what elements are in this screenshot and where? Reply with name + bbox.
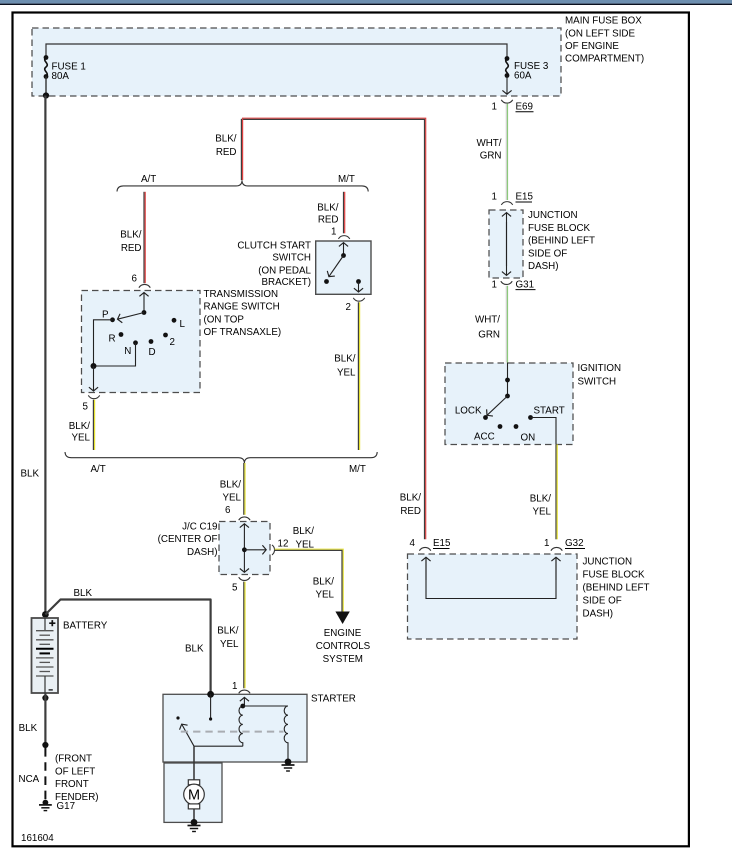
svg-text:5: 5 bbox=[83, 401, 89, 412]
svg-text:CONTROLS: CONTROLS bbox=[316, 641, 371, 652]
connector G31 cup bbox=[501, 281, 512, 284]
wire BLK/YEL clutch to lower brace bbox=[357, 302, 359, 450]
junction fuse block 2 internal link bbox=[426, 560, 556, 599]
svg-text:P: P bbox=[102, 309, 109, 320]
wire BLK/RED A/T branch bbox=[143, 192, 145, 283]
svg-text:MAIN FUSE BOX: MAIN FUSE BOX bbox=[565, 16, 642, 27]
engine controls system arrow bbox=[335, 612, 349, 625]
clutch switch entry arrow bbox=[343, 243, 345, 256]
svg-text:(ON PEDAL: (ON PEDAL bbox=[258, 265, 311, 276]
TRS contact R bbox=[119, 332, 124, 337]
svg-text:LOCK: LOCK bbox=[455, 405, 482, 416]
svg-text:BLK/: BLK/ bbox=[217, 625, 239, 636]
svg-text:DASH): DASH) bbox=[583, 609, 613, 620]
battery box bbox=[32, 618, 59, 693]
clutch switch arm bbox=[329, 256, 344, 277]
clutch start switch box bbox=[316, 241, 371, 294]
ignition START contact bbox=[528, 415, 533, 420]
svg-text:BLK/: BLK/ bbox=[400, 493, 422, 504]
TRS wire P to junction to N bbox=[94, 320, 136, 366]
svg-text:BLK/: BLK/ bbox=[69, 421, 91, 432]
svg-text:RED: RED bbox=[121, 243, 142, 254]
svg-text:DASH): DASH) bbox=[528, 261, 558, 272]
wire BLK/YEL TRS to lower brace bbox=[92, 400, 94, 450]
svg-text:1: 1 bbox=[331, 227, 336, 238]
svg-text:BLK/: BLK/ bbox=[317, 202, 339, 213]
svg-text:M: M bbox=[188, 788, 200, 804]
wire BLK/YEL J/C to starter bbox=[243, 582, 245, 689]
junction connector J/C C19 box bbox=[219, 522, 270, 575]
starter motor ground node bbox=[191, 819, 198, 826]
brace A/T M/T upper bbox=[117, 180, 368, 191]
clutch switch left contact bbox=[324, 279, 329, 284]
svg-text:YEL: YEL bbox=[315, 590, 334, 601]
svg-text:E69: E69 bbox=[516, 102, 533, 113]
J/C C19 internal vertical arrows bbox=[243, 524, 245, 550]
battery top tick bbox=[44, 618, 46, 631]
svg-text:JUNCTION: JUNCTION bbox=[528, 210, 578, 221]
svg-text:GRN: GRN bbox=[478, 329, 500, 340]
svg-text:6: 6 bbox=[225, 505, 231, 516]
TRS junction node bbox=[91, 363, 97, 369]
battery bottom tick bbox=[44, 676, 46, 693]
svg-text:(ON LEFT SIDE: (ON LEFT SIDE bbox=[565, 28, 636, 39]
clutch switch exit arrow pin 2 bbox=[358, 282, 360, 293]
svg-text:OF ENGINE: OF ENGINE bbox=[565, 41, 619, 52]
svg-text:SIDE OF: SIDE OF bbox=[583, 596, 622, 607]
svg-text:J/C C19: J/C C19 bbox=[182, 521, 217, 532]
svg-text:BRACKET): BRACKET) bbox=[261, 277, 311, 288]
junction fuse block 2 box bbox=[408, 554, 578, 639]
svg-text:COMPARTMENT): COMPARTMENT) bbox=[565, 54, 644, 65]
svg-text:WHT/: WHT/ bbox=[475, 314, 500, 325]
clutch switch pivot node bbox=[341, 253, 346, 258]
wire: bus inside main fuse box bbox=[46, 44, 507, 59]
svg-text:(BEHIND LEFT: (BEHIND LEFT bbox=[583, 583, 650, 594]
starter battery feed node bbox=[207, 691, 214, 698]
svg-text:YEL: YEL bbox=[71, 432, 90, 443]
svg-text:1: 1 bbox=[544, 538, 549, 549]
svg-text:M/T: M/T bbox=[349, 464, 366, 475]
svg-text:BLK: BLK bbox=[74, 588, 93, 599]
junction node above battery bbox=[42, 611, 49, 618]
svg-text:SIDE OF: SIDE OF bbox=[528, 248, 567, 259]
svg-text:FRONT: FRONT bbox=[55, 779, 89, 790]
TRS contact L bbox=[172, 318, 177, 323]
ground at starter solenoid bbox=[282, 764, 295, 766]
svg-text:WHT/: WHT/ bbox=[476, 138, 501, 149]
starter switch arm bbox=[182, 724, 194, 746]
wire from START inside box bbox=[531, 418, 557, 445]
svg-text:RANGE SWITCH: RANGE SWITCH bbox=[204, 302, 280, 313]
svg-text:JUNCTION: JUNCTION bbox=[583, 557, 633, 568]
svg-text:RED: RED bbox=[400, 506, 421, 517]
svg-text:SWITCH: SWITCH bbox=[272, 253, 311, 264]
svg-text:(ON TOP: (ON TOP bbox=[204, 314, 245, 325]
svg-text:G31: G31 bbox=[516, 279, 535, 290]
svg-text:BLK/: BLK/ bbox=[530, 493, 552, 504]
ignition switch arm to LOCK bbox=[487, 396, 508, 415]
svg-text:BLK/: BLK/ bbox=[313, 576, 335, 587]
brace A/T M/T lower bbox=[65, 452, 377, 463]
clutch switch right contact bbox=[356, 279, 361, 284]
svg-text:BLK: BLK bbox=[21, 469, 40, 480]
svg-text:BLK/: BLK/ bbox=[215, 134, 237, 145]
svg-text:RED: RED bbox=[318, 215, 339, 226]
starter motor ground wire bbox=[193, 809, 195, 823]
wire BLK/YEL lower brace to J/C C19 bbox=[243, 463, 245, 515]
battery plus sign bbox=[49, 620, 55, 626]
connector E15 pin 4 dome bbox=[419, 547, 430, 550]
svg-text:SWITCH: SWITCH bbox=[578, 377, 617, 388]
svg-text:D: D bbox=[149, 347, 156, 358]
starter solenoid box bbox=[163, 694, 307, 762]
TRS contact D bbox=[149, 339, 154, 344]
starter motor circle bbox=[184, 784, 205, 805]
svg-text:OF TRANSAXLE): OF TRANSAXLE) bbox=[204, 327, 282, 338]
svg-text:N: N bbox=[124, 346, 131, 357]
svg-text:ACC: ACC bbox=[474, 431, 495, 442]
svg-text:FUSE BLOCK: FUSE BLOCK bbox=[528, 223, 591, 234]
ground G17 bbox=[43, 800, 49, 806]
ground at starter motor bbox=[188, 825, 201, 827]
TRS exit arrow pin 5 bbox=[93, 366, 95, 391]
transmission range switch box bbox=[82, 291, 201, 393]
svg-text:(FRONT: (FRONT bbox=[55, 754, 92, 765]
wire NCA dashed to G17 bbox=[44, 748, 46, 801]
svg-text:YEL: YEL bbox=[532, 507, 551, 518]
svg-text:1: 1 bbox=[492, 279, 497, 290]
J/C C19 exit cup pin 5 bbox=[239, 577, 250, 580]
svg-text:DASH): DASH) bbox=[187, 547, 217, 558]
svg-text:M/T: M/T bbox=[338, 174, 355, 185]
svg-text:BLK/: BLK/ bbox=[293, 526, 315, 537]
fuse FUSE 1 80A bbox=[45, 58, 48, 77]
svg-text:A/T: A/T bbox=[141, 174, 156, 185]
wire BLK/YEL pin 12 to engine controls bbox=[275, 549, 344, 611]
svg-text:TRANSMISSION: TRANSMISSION bbox=[204, 289, 279, 300]
TRS contact P bbox=[110, 317, 115, 322]
ignition ACC contact bbox=[498, 424, 503, 429]
junction node at fuse box exit bbox=[43, 92, 49, 98]
svg-text:161604: 161604 bbox=[21, 833, 54, 844]
svg-text:CLUTCH START: CLUTCH START bbox=[237, 240, 311, 251]
ignition LOCK contact bbox=[483, 415, 488, 420]
wire WHT/GRN E69 to E15 bbox=[505, 104, 507, 200]
starter mechanical link dashed bbox=[181, 731, 284, 733]
starter coil top link bbox=[243, 705, 288, 707]
svg-text:BLK/: BLK/ bbox=[220, 479, 242, 490]
TRS contact N bbox=[133, 340, 138, 345]
starter pull-in coil bbox=[239, 706, 243, 746]
connector E69 cup bbox=[501, 100, 512, 103]
svg-text:L: L bbox=[180, 319, 186, 330]
svg-text:1: 1 bbox=[492, 192, 497, 203]
fuse FUSE 3 60A bbox=[506, 59, 509, 77]
svg-text:E15: E15 bbox=[516, 192, 534, 203]
svg-text:G17: G17 bbox=[57, 801, 76, 812]
wire BLK/RED M/T branch bbox=[343, 192, 345, 234]
starter coil junction node bbox=[240, 704, 245, 709]
svg-text:NCA: NCA bbox=[19, 774, 40, 785]
svg-text:2: 2 bbox=[346, 302, 351, 313]
starter switch upper contact bbox=[176, 716, 179, 719]
main fuse box bbox=[32, 28, 561, 96]
junction node below battery bbox=[42, 695, 48, 701]
ignition ON contact bbox=[514, 424, 519, 429]
svg-text:12: 12 bbox=[278, 538, 289, 549]
connector 12 cup right of J/C bbox=[272, 545, 275, 555]
connector 2 cup below clutch switch bbox=[353, 298, 364, 301]
svg-text:5: 5 bbox=[232, 583, 238, 594]
svg-text:IGNITION: IGNITION bbox=[578, 363, 622, 374]
junction node NCA bbox=[42, 742, 48, 748]
svg-text:FUSE BLOCK: FUSE BLOCK bbox=[583, 570, 646, 581]
wire BLK battery to NCA node bbox=[44, 693, 46, 745]
starter motor box bbox=[164, 763, 222, 822]
connector 5 cup below TRS bbox=[88, 395, 99, 398]
starter hold-in coil bbox=[284, 706, 288, 762]
connector G32 dome bbox=[551, 547, 562, 550]
junction fuse block 1 internal arrow bbox=[506, 213, 508, 266]
svg-text:G32: G32 bbox=[565, 538, 584, 549]
wire WHT/GRN G31 to ignition switch bbox=[505, 286, 507, 363]
battery plates bbox=[36, 630, 54, 632]
svg-text:(BEHIND LEFT: (BEHIND LEFT bbox=[528, 236, 595, 247]
svg-text:YEL: YEL bbox=[295, 539, 314, 550]
top window bar bbox=[0, 0, 732, 4]
svg-text:E15: E15 bbox=[433, 538, 451, 549]
svg-text:SYSTEM: SYSTEM bbox=[323, 654, 363, 665]
svg-text:BATTERY: BATTERY bbox=[63, 621, 108, 632]
starter motor brush top bbox=[188, 780, 199, 785]
wire from fuse 1 to box edge bbox=[45, 77, 47, 96]
starter switch lower path to coil and motor bbox=[194, 745, 243, 747]
svg-text:1: 1 bbox=[492, 101, 497, 112]
battery minus sign bbox=[49, 689, 53, 691]
svg-text:6: 6 bbox=[132, 274, 138, 285]
wire BLK/YEL ignition to G32 bbox=[555, 444, 557, 539]
svg-text:YEL: YEL bbox=[337, 367, 356, 378]
ignition switch contact node bbox=[505, 378, 510, 383]
TRS entry arrow bbox=[143, 293, 145, 313]
wire BLK fuse 1 to battery bbox=[44, 96, 46, 618]
J/C C19 node bbox=[242, 547, 247, 552]
wire BLK/RED stub above upper brace bbox=[240, 119, 242, 180]
svg-text:GRN: GRN bbox=[480, 150, 502, 161]
svg-text:BLK/: BLK/ bbox=[120, 230, 142, 241]
junction fuse block 1 box bbox=[489, 210, 523, 278]
TRS arm to P bbox=[118, 313, 145, 320]
starter motor brush bottom bbox=[188, 804, 199, 809]
connector E15 dome bbox=[501, 202, 512, 205]
connector E69 exit arrow bbox=[506, 77, 508, 95]
svg-text:4: 4 bbox=[410, 538, 416, 549]
svg-text:ON: ON bbox=[521, 432, 536, 443]
TRS contact 2 bbox=[163, 333, 168, 338]
svg-text:1: 1 bbox=[232, 681, 237, 692]
svg-text:START: START bbox=[534, 406, 565, 417]
svg-text:80A: 80A bbox=[52, 71, 70, 82]
svg-text:OF LEFT: OF LEFT bbox=[55, 766, 95, 777]
svg-text:2: 2 bbox=[170, 337, 175, 348]
J/C C19 arrow to pin 12 bbox=[244, 549, 266, 551]
svg-text:(CENTER OF: (CENTER OF bbox=[158, 534, 218, 545]
starter fixed contact stub bbox=[210, 694, 212, 717]
svg-text:YEL: YEL bbox=[222, 493, 241, 504]
starter pin 1 entry arrow bbox=[243, 697, 245, 706]
TRS common node bbox=[142, 310, 147, 315]
svg-text:RED: RED bbox=[216, 147, 237, 158]
wire BLK battery to starter bbox=[45, 600, 210, 695]
svg-text:BLK: BLK bbox=[185, 644, 204, 655]
starter solenoid ground node bbox=[285, 759, 292, 766]
ignition switch internal feed wire bbox=[507, 363, 509, 397]
svg-text:YEL: YEL bbox=[220, 639, 239, 650]
svg-text:ENGINE: ENGINE bbox=[324, 628, 362, 639]
svg-text:60A: 60A bbox=[514, 70, 532, 81]
svg-text:A/T: A/T bbox=[91, 464, 106, 475]
wire BLK/RED main feed: horizontal and down to E15 pin 4 bbox=[242, 118, 426, 539]
ignition switch pivot node bbox=[505, 394, 510, 399]
svg-text:BLK/: BLK/ bbox=[334, 354, 356, 365]
svg-text:R: R bbox=[109, 333, 116, 344]
ignition switch box bbox=[445, 363, 573, 445]
svg-text:STARTER: STARTER bbox=[311, 693, 356, 704]
svg-text:BLK: BLK bbox=[19, 723, 38, 734]
